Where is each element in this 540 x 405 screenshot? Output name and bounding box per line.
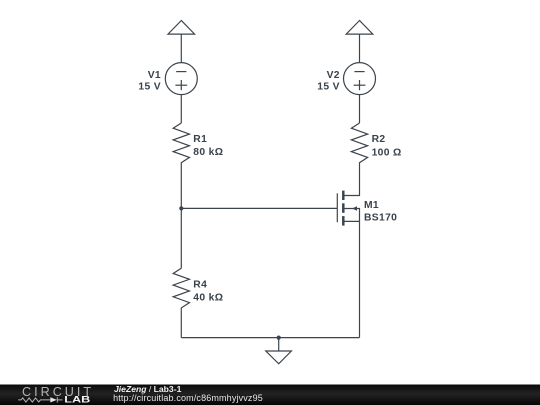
svg-text:http://circuitlab.com/c86mmhyj: http://circuitlab.com/c86mmhyjvvz95 bbox=[113, 393, 263, 403]
wire (bottom rail) bbox=[181, 337, 359, 339]
svg-text:15 V: 15 V bbox=[138, 81, 161, 92]
svg-text:M1: M1 bbox=[364, 200, 379, 211]
wire bbox=[180, 165, 182, 268]
node (junction R1/R4/gate) bbox=[179, 206, 183, 210]
wire (gate net) bbox=[181, 207, 337, 209]
svg-text:LAB: LAB bbox=[64, 395, 90, 405]
svg-text:40 kΩ: 40 kΩ bbox=[193, 293, 223, 304]
power flag V1 (VCC arrow) bbox=[168, 21, 195, 35]
svg-text:15 V: 15 V bbox=[317, 82, 340, 93]
resistor R1 bbox=[173, 123, 189, 165]
svg-text:V2: V2 bbox=[327, 70, 340, 81]
wire bbox=[180, 95, 182, 123]
transistor M1 (NMOS) bbox=[337, 191, 359, 226]
svg-text:R1: R1 bbox=[193, 134, 207, 145]
svg-text:BS170: BS170 bbox=[364, 213, 397, 224]
resistor R2 bbox=[351, 123, 367, 165]
svg-text:100 Ω: 100 Ω bbox=[372, 147, 402, 158]
svg-text:80 kΩ: 80 kΩ bbox=[193, 147, 223, 158]
wire (source to rail) bbox=[359, 221, 361, 337]
voltage source V2 bbox=[344, 63, 376, 95]
power flag V2 (VCC arrow) bbox=[346, 21, 373, 35]
wire bbox=[180, 34, 182, 63]
node (ground junction) bbox=[277, 336, 281, 340]
ground bbox=[266, 338, 292, 364]
wire bbox=[180, 310, 182, 337]
wire bbox=[359, 34, 361, 63]
svg-text:R4: R4 bbox=[193, 280, 207, 291]
svg-text:R2: R2 bbox=[372, 134, 386, 145]
wire bbox=[359, 95, 361, 123]
logo resistor-diode line bbox=[18, 397, 62, 402]
resistor R4 bbox=[173, 268, 189, 310]
svg-text:V1: V1 bbox=[148, 70, 161, 81]
voltage source V1 bbox=[165, 63, 197, 95]
wire (drain) bbox=[344, 165, 360, 196]
